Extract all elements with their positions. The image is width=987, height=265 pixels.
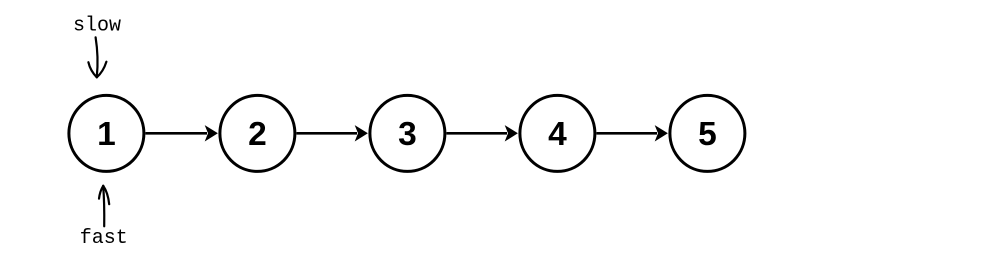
node 5 xyxy=(670,95,745,171)
wire arrow 4-5 xyxy=(597,125,668,141)
node 2 xyxy=(220,95,295,171)
node 1 xyxy=(69,95,144,171)
slow pointer arrow xyxy=(88,37,106,77)
svg-text:2: 2 xyxy=(248,116,267,153)
wire arrow 3-4 xyxy=(447,125,518,141)
wire arrow 2-3 xyxy=(297,125,368,141)
svg-text:3: 3 xyxy=(398,116,417,153)
fast pointer arrow xyxy=(99,186,109,227)
svg-text:fast: fast xyxy=(80,227,128,250)
svg-text:slow: slow xyxy=(73,15,121,38)
node 4 xyxy=(520,95,595,171)
wire arrow 1-2 xyxy=(146,125,218,141)
svg-text:1: 1 xyxy=(97,116,116,153)
node 3 xyxy=(370,95,445,171)
svg-text:4: 4 xyxy=(548,116,567,153)
svg-text:5: 5 xyxy=(698,116,717,153)
